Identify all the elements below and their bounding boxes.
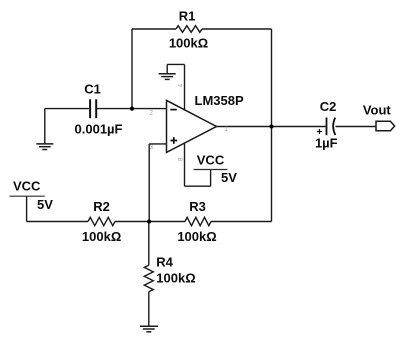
svg-text:LM358P: LM358P (195, 93, 244, 108)
wire: bottom pin horizontal to VCC stub (185, 185, 211, 187)
capacitor C1 (90, 99, 96, 118)
svg-text:C1: C1 (84, 82, 101, 97)
resistor R2 (88, 217, 115, 225)
svg-text:VCC: VCC (13, 179, 41, 194)
svg-text:1: 1 (224, 126, 228, 133)
svg-text:100kΩ: 100kΩ (156, 271, 195, 286)
svg-text:Vout: Vout (363, 103, 392, 118)
svg-text:4: 4 (178, 84, 185, 88)
wire: R4 top lead from junction (148, 222, 150, 266)
svg-text:2: 2 (149, 110, 153, 117)
svg-text:R4: R4 (156, 255, 173, 270)
wire: R4 bottom lead to ground (148, 292, 150, 326)
wire: R2 row right segment to junction (115, 221, 149, 223)
svg-text:1µF: 1µF (315, 136, 338, 151)
wire: op-amp top pin vertical (pin 4) (184, 64, 186, 110)
power VCC symbol (op-amp supply) (194, 169, 228, 171)
capacitor C2 (polarized) (327, 118, 336, 136)
wire: right vertical from output node down to R3 row (271, 127, 273, 222)
wire: from C2 to Vout terminal (336, 126, 377, 128)
junction node at output (269, 124, 273, 128)
ground (op-amp pin 4) (159, 74, 176, 80)
resistor R1 (176, 26, 202, 33)
wire: ground drop left of C1 (44, 109, 46, 144)
svg-text:5V: 5V (221, 170, 237, 185)
wire: C1 row left segment from ground stub to C1 (45, 108, 89, 110)
wire: R3 row left segment from junction (149, 221, 185, 223)
wire: right vertical from top wire down to output node (271, 29, 273, 127)
op-amp U1 LM358P (167, 100, 217, 152)
svg-text:5V: 5V (37, 197, 53, 212)
svg-text:C2: C2 (320, 99, 337, 114)
ground (left of C1) (36, 144, 53, 150)
wire: top pin horizontal to ground stub (167, 63, 184, 65)
wire: R2 row left segment (27, 221, 88, 223)
svg-text:R3: R3 (189, 199, 206, 214)
minus input marker (170, 109, 177, 111)
svg-text:100kΩ: 100kΩ (82, 229, 121, 244)
svg-text:100kΩ: 100kΩ (177, 229, 216, 244)
Vout terminal (376, 121, 395, 131)
svg-text:0.001µF: 0.001µF (75, 122, 123, 137)
power VCC symbol (left, feeding R2) (10, 195, 45, 197)
svg-text:R1: R1 (179, 9, 196, 24)
wire: top pin ground stub down (166, 64, 168, 73)
wire: VCC stub down to R2 row (left supply) (26, 196, 28, 221)
plus input marker (170, 137, 177, 144)
svg-text:3: 3 (149, 144, 153, 151)
resistor R3 (185, 217, 211, 225)
ground (below R4) (140, 326, 158, 332)
wire: top wire left segment to R1 (132, 28, 176, 30)
svg-text:VCC: VCC (197, 153, 225, 168)
wire: R3 row right segment to right vertical (211, 221, 272, 223)
wire: output from op-amp apex to C2 (217, 126, 326, 128)
svg-text:R2: R2 (93, 199, 110, 214)
svg-text:100kΩ: 100kΩ (169, 36, 208, 51)
wire: op-amp bottom pin vertical (pin 8) (184, 143, 186, 186)
svg-text:8: 8 (178, 157, 185, 161)
junction node at R2/R3/R4 (147, 219, 151, 223)
junction node at C1 / pin 2 (130, 107, 134, 111)
plus sign of C2 (317, 129, 322, 134)
resistor R4 (144, 265, 153, 292)
wire: C1 row right segment from C1 to node and op-amp pin 2 (96, 108, 166, 110)
wire: pin 3 vertical down to R2/R3 junction (148, 144, 150, 222)
wire: top wire right segment from R1 to right vertical (202, 28, 272, 30)
wire: left vertical from C1 node up to R1 top wire (131, 29, 133, 109)
wire: op-amp pin 3 horizontal segment (149, 143, 166, 145)
wire: VCC stub up to bar (op-amp supply) (210, 170, 212, 187)
